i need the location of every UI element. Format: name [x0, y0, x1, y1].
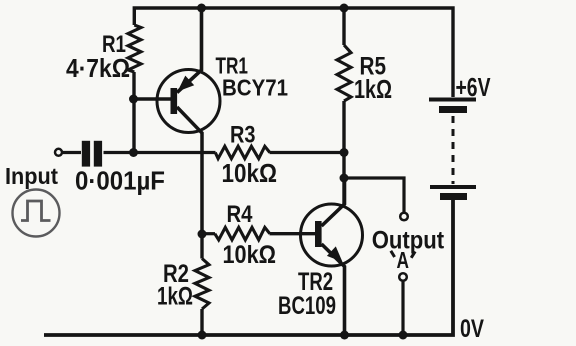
node dot bottom rail R2	[198, 331, 207, 340]
wire R5 top	[342, 8, 345, 45]
wire R4 to TR2 base	[270, 232, 316, 235]
svg-text:10kΩ: 10kΩ	[222, 158, 278, 188]
svg-text:1kΩ: 1kΩ	[157, 283, 193, 311]
wire R2 bottom	[200, 309, 203, 335]
battery cell 1 long plate	[429, 98, 476, 102]
wire TR2 collector	[322, 178, 345, 226]
node dot bottom rail output	[399, 331, 408, 340]
wire capacitor to junction	[104, 151, 134, 154]
wire R5 bottom to TR2 collector node	[342, 101, 345, 204]
input terminal	[55, 149, 62, 156]
svg-text:10kΩ: 10kΩ	[223, 241, 277, 269]
battery cell 2 long plate	[430, 185, 476, 189]
output terminal upper	[400, 213, 408, 221]
wire R4 junction to zigzag	[202, 232, 215, 235]
svg-text:BCY71: BCY71	[222, 74, 288, 100]
resistor R2	[195, 259, 209, 310]
transistor TR2 base bar	[315, 221, 322, 247]
node dot output branch junction	[340, 174, 349, 183]
node dot bottom rail TR2 emitter	[340, 331, 349, 340]
wire R1 bottom to input junction	[132, 72, 135, 153]
svg-text:+6V: +6V	[456, 74, 491, 102]
svg-text:R3: R3	[230, 122, 256, 149]
wire TR1 base	[134, 97, 172, 100]
node dot top rail TR1 emitter	[197, 4, 206, 13]
wire bottom rail and right side up to battery	[44, 200, 453, 335]
svg-text:R4: R4	[227, 201, 254, 228]
wire output branch	[344, 178, 404, 213]
pulse source symbol circle	[13, 190, 60, 237]
tick left of A	[391, 251, 395, 257]
pulse waveform	[21, 201, 51, 221]
wire TR1 emitter from top rail	[177, 8, 202, 93]
wire TR1 collector down	[177, 107, 202, 234]
svg-text:0·001µF: 0·001µF	[75, 166, 165, 196]
svg-text:4·7kΩ: 4·7kΩ	[66, 53, 130, 83]
resistor R3	[215, 146, 269, 158]
battery cell 1 short plate	[439, 106, 467, 113]
transistor TR1 emitter arrow	[178, 76, 195, 92]
wire input to capacitor	[62, 151, 81, 154]
node dot R4 R2 collector junction	[198, 230, 207, 239]
transistor TR1 base bar	[171, 88, 178, 114]
node dot top rail R5	[340, 4, 349, 13]
battery dashed link	[452, 116, 455, 184]
battery cell 2 short plate	[440, 193, 467, 200]
transistor TR2 circle	[301, 204, 363, 266]
svg-text:BC109: BC109	[278, 292, 336, 320]
svg-text:1kΩ: 1kΩ	[354, 74, 392, 104]
capacitor C1 plate left	[82, 141, 90, 167]
resistor R1	[128, 25, 141, 72]
svg-text:A: A	[397, 247, 410, 273]
wire R2 top	[200, 234, 203, 259]
tick right of A	[411, 252, 415, 258]
wire top rail with left and right corners	[134, 8, 453, 97]
wire lower terminal to rail	[401, 281, 404, 335]
node dot TR1 base junction	[129, 95, 138, 104]
svg-text:Input: Input	[5, 163, 58, 189]
output terminal lower	[399, 273, 407, 281]
resistor R4	[215, 227, 270, 240]
resistor R5	[337, 45, 351, 101]
wire TR2 emitter	[322, 244, 345, 335]
node dot input junction	[129, 148, 138, 157]
capacitor C1 plate right	[94, 141, 102, 167]
svg-text:0V: 0V	[460, 315, 484, 343]
wire R3 to node	[270, 151, 345, 154]
transistor TR2 emitter arrow	[327, 246, 343, 262]
node dot R3 right junction	[340, 148, 349, 157]
transistor TR1 circle	[157, 70, 220, 133]
wire input node to R3	[134, 151, 216, 154]
